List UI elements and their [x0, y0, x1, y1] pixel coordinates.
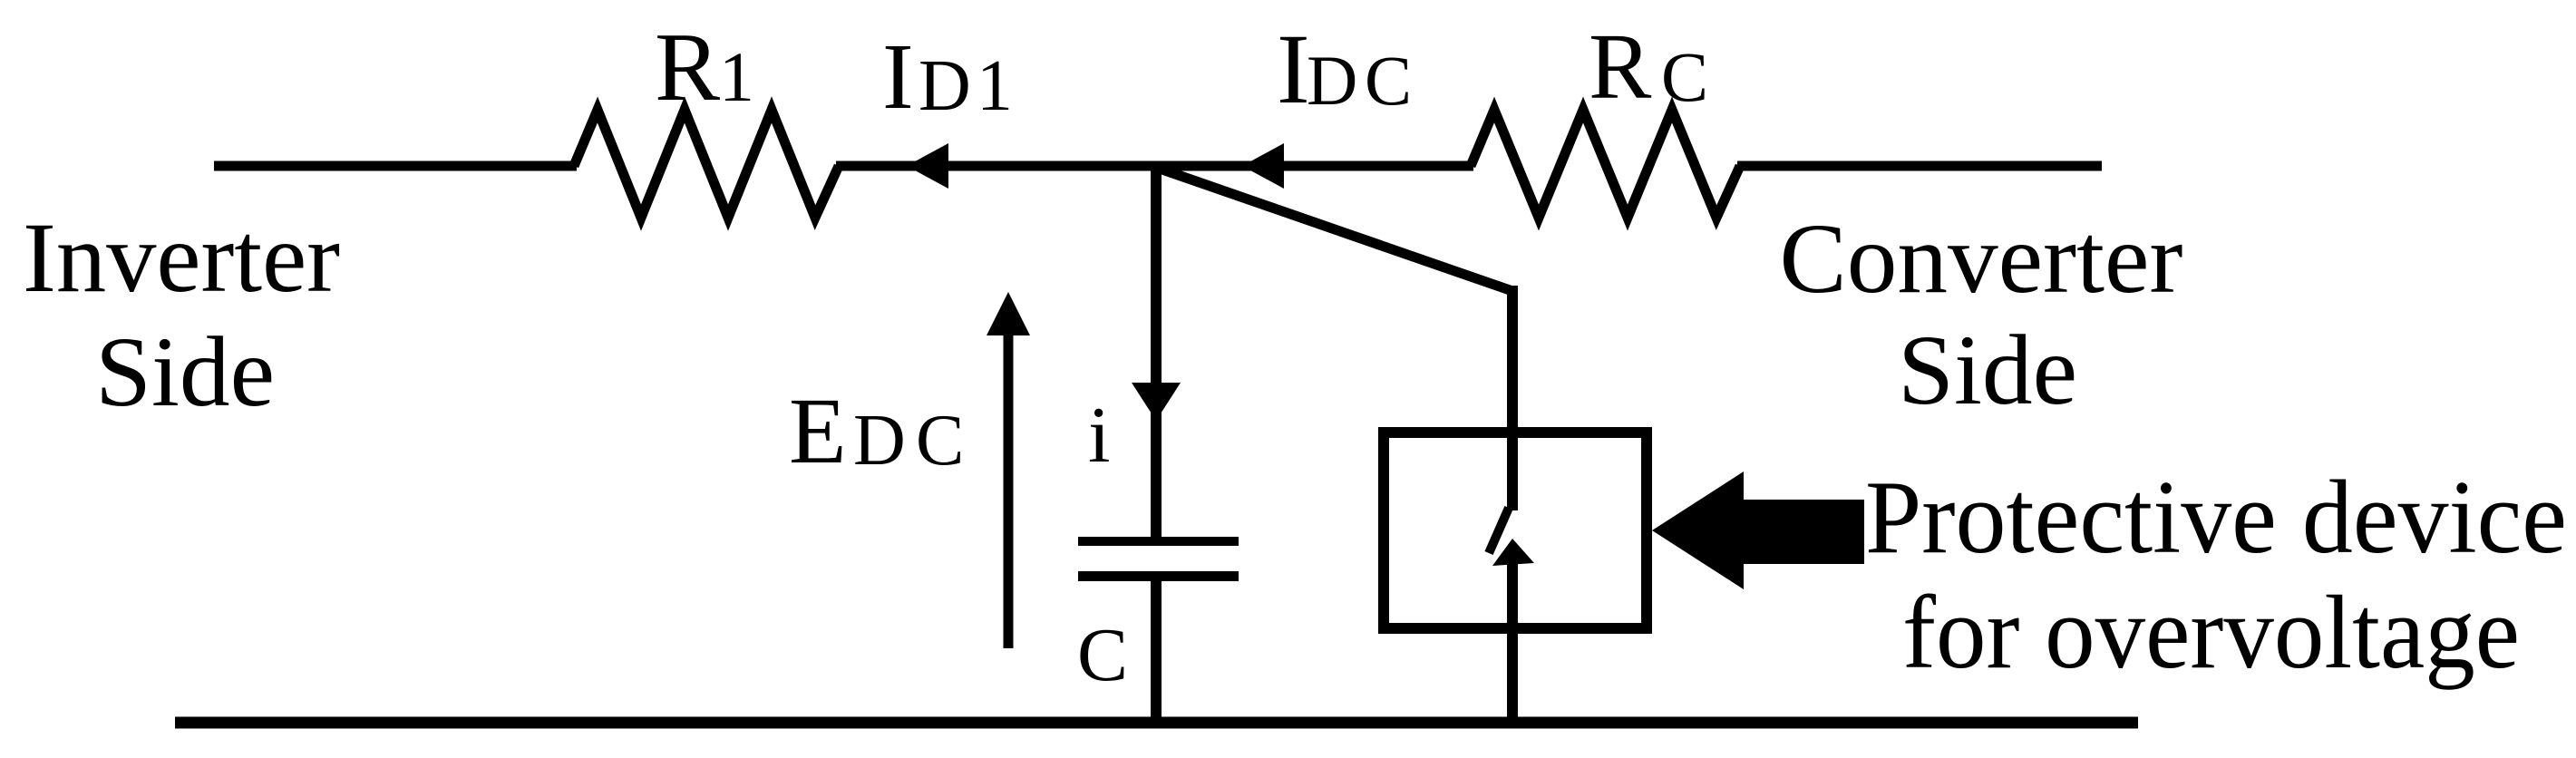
current arrow IDC [1242, 143, 1284, 189]
svg-text:for overvoltage: for overvoltage [1902, 575, 2520, 691]
svg-text:D: D [919, 46, 971, 126]
svg-text:Inverter: Inverter [23, 202, 340, 313]
svg-text:E: E [789, 379, 847, 483]
wire top bus segment (node to RC) [1153, 161, 1473, 171]
wire vertical into box [1507, 286, 1518, 510]
callout arrow to protective device [1652, 471, 1864, 589]
svg-text:C: C [916, 401, 964, 481]
svg-text:Protective device: Protective device [1865, 460, 2567, 576]
wire top bus middle segment (node to R1) [836, 161, 1159, 171]
svg-text:D: D [853, 401, 906, 481]
svg-text:I: I [882, 24, 914, 129]
current arrow ID1 [907, 143, 948, 189]
protective device box [1384, 432, 1647, 628]
svg-text:Side: Side [1898, 315, 2077, 425]
svg-text:R: R [655, 14, 720, 121]
resistor R1 [574, 110, 839, 218]
wire top bus right segment (converter side) [1737, 161, 2102, 171]
capacitor C bottom plate [1078, 571, 1239, 581]
wire diagonal from node to protective device [1160, 169, 1512, 291]
svg-text:1: 1 [977, 46, 1013, 126]
svg-text:R: R [1589, 15, 1652, 119]
voltage arrow EDC [1004, 332, 1014, 648]
svg-text:i: i [1088, 392, 1110, 480]
svg-text:I: I [1277, 14, 1310, 124]
svg-text:1: 1 [719, 37, 754, 116]
svg-text:Side: Side [95, 316, 275, 427]
node vertical wire lower [1151, 577, 1162, 723]
capacitor C top plate [1078, 537, 1239, 546]
resistor RC [1471, 110, 1740, 218]
svg-text:C: C [1365, 41, 1412, 120]
svg-text:C: C [1661, 37, 1708, 116]
wire from symbol through box bottom to bottom bus [1507, 553, 1518, 723]
bottom bus wire [175, 717, 2138, 729]
wire top bus left segment (inverter side) [214, 161, 577, 171]
svg-text:Converter: Converter [1780, 203, 2183, 314]
svg-text:C: C [1077, 613, 1128, 697]
current arrow i on node wire [1132, 383, 1181, 421]
spark-gap symbol inside box [1489, 508, 1509, 553]
node vertical wire upper [1151, 166, 1162, 541]
svg-text:D: D [1307, 41, 1357, 120]
